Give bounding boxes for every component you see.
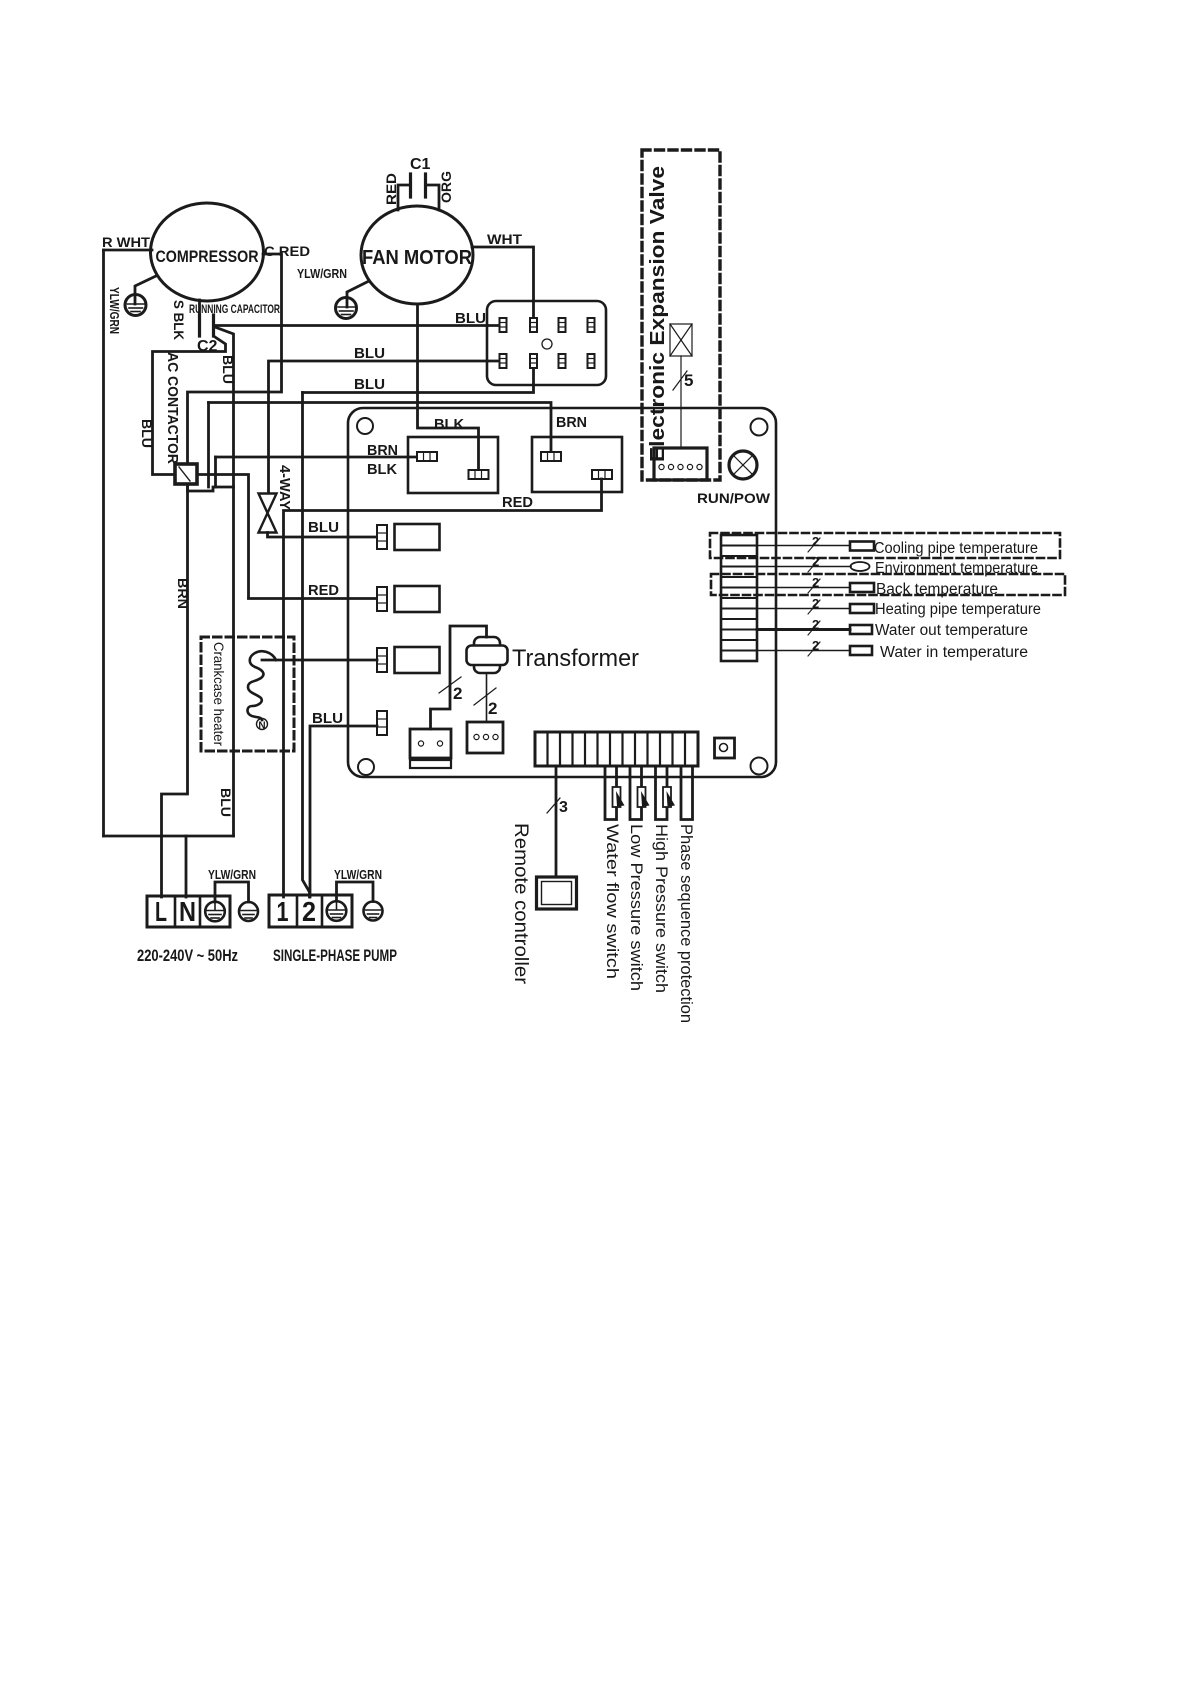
PCB mounting hole bottom-left	[358, 759, 374, 775]
svg-text:Low Pressure switch: Low Pressure switch	[627, 824, 646, 991]
svg-text:BLU: BLU	[218, 788, 234, 817]
transformer T1	[467, 637, 508, 673]
capacitor C1	[411, 174, 426, 197]
J1 pin 5	[500, 354, 507, 368]
svg-text:RUNNING CAPACITOR: RUNNING CAPACITOR	[189, 304, 280, 316]
Electronic Expansion Valve dashed box	[642, 150, 720, 480]
J1 pin 7	[559, 354, 566, 368]
ground screw TB2	[327, 901, 347, 921]
wire BRN left drop	[207, 403, 210, 488]
svg-text:2: 2	[812, 575, 819, 590]
svg-text:2: 2	[453, 684, 462, 703]
relay RY2 pin b	[592, 470, 612, 479]
svg-text:BLU: BLU	[139, 419, 155, 448]
wire YLW/GRN bracket TB1	[215, 882, 249, 902]
bus slash 2 (secondary)	[474, 688, 496, 705]
wire high pressure switch loop	[656, 766, 668, 820]
svg-text:R WHT: R WHT	[102, 234, 150, 250]
J1 pin 3	[559, 318, 566, 332]
sensor RT6	[850, 646, 872, 655]
wire sensor 6	[757, 650, 850, 652]
svg-text:2: 2	[812, 554, 819, 569]
svg-text:3: 3	[559, 799, 568, 816]
connector CN5	[410, 729, 451, 768]
wire N terminal riser	[185, 836, 188, 897]
J1 pin 1	[500, 318, 507, 332]
connector J2 (5-pin EEV)	[654, 448, 707, 480]
svg-text:BRN: BRN	[175, 578, 191, 609]
PCB mounting hole top-right	[751, 419, 768, 436]
wire BLU third line: connector pin 6 to pump circuit	[303, 368, 534, 393]
svg-text:AC CONTACTOR: AC CONTACTOR	[164, 352, 181, 464]
wire WHT: fan to connector pin 2	[472, 247, 534, 316]
PCB connector CN2 box	[395, 586, 440, 612]
svg-text:N: N	[179, 896, 196, 927]
svg-text:FAN MOTOR: FAN MOTOR	[362, 247, 473, 269]
wire BLK: fan bottom to relay1	[418, 304, 479, 470]
PCB board outline	[348, 408, 776, 777]
svg-text:N: N	[258, 721, 265, 732]
PCB connector CN2 pin	[377, 587, 387, 611]
PCB mounting hole top-left	[357, 418, 373, 434]
wire sensor 2	[757, 566, 851, 568]
J1 pin 6	[530, 354, 537, 368]
connector CN6	[467, 722, 503, 753]
wire BLU riser from neutral bus to C2 right plate	[215, 327, 234, 836]
wire remote controller cable	[555, 766, 558, 877]
svg-text:1: 1	[277, 896, 289, 927]
svg-text:BLK: BLK	[367, 462, 398, 478]
crankcase heater element R1	[248, 651, 276, 720]
wire sensor 5 (thick)	[757, 628, 850, 631]
wire transformer secondary to CN6	[486, 673, 488, 722]
svg-text:C RED: C RED	[264, 243, 310, 259]
svg-text:YLW/GRN: YLW/GRN	[334, 867, 382, 882]
wire BRN contactor to terminal L	[162, 484, 188, 897]
remote controller box	[537, 877, 577, 909]
bus slash 2 (sensor4)	[808, 600, 820, 614]
PCB connector CN1 pin	[377, 525, 387, 549]
jumper block on pcb	[715, 738, 735, 758]
bus slash 2 (sensor2)	[808, 558, 820, 572]
ground terminal external TB1	[239, 902, 258, 921]
wire RED contactor to PCB pin CN2	[249, 597, 378, 600]
svg-text:High Pressure switch: High Pressure switch	[652, 824, 671, 993]
wire contactor coil path from C2 left plate	[153, 337, 226, 475]
relay RY2	[532, 437, 622, 492]
relay RY1	[408, 437, 498, 493]
relay RY1 pin a	[417, 452, 437, 461]
svg-text:BLU: BLU	[220, 355, 236, 384]
sensor RT5	[850, 625, 872, 634]
sensor RT3	[850, 583, 874, 592]
svg-text:BLU: BLU	[308, 520, 339, 536]
svg-text:BLU: BLU	[354, 346, 385, 362]
svg-text:RED: RED	[502, 495, 533, 511]
dashed box cooling pipe temperature	[710, 533, 1060, 558]
ground screw TB1	[205, 902, 225, 922]
svg-text:2: 2	[812, 617, 819, 632]
wire C1 right lead	[426, 185, 440, 210]
wire crankcase heater to PCB pin CN3	[262, 659, 377, 662]
svg-text:2: 2	[302, 896, 316, 927]
wire water flow switch loop	[605, 766, 617, 820]
wire sensor 1	[757, 545, 850, 547]
temperature sensor connector CN7	[721, 535, 757, 661]
svg-text:Environment temperature: Environment temperature	[875, 560, 1038, 577]
wire transformer primary to CN5	[431, 626, 487, 729]
compressor M1	[151, 203, 264, 301]
svg-text:Water in temperature: Water in temperature	[880, 644, 1028, 661]
svg-text:BLU: BLU	[312, 711, 343, 727]
bus slash 5	[673, 371, 687, 390]
svg-text:BLU: BLU	[455, 311, 486, 327]
relay RY2 pin a	[541, 452, 561, 461]
svg-text:Water out temperature: Water out temperature	[875, 622, 1028, 639]
svg-text:2: 2	[812, 638, 819, 653]
PCB connector CN3 box	[395, 647, 440, 673]
svg-text:220-240V ~ 50Hz: 220-240V ~ 50Hz	[137, 946, 238, 965]
wire BLU second line to connector pin 5	[269, 361, 501, 493]
svg-text:L: L	[155, 896, 167, 927]
junction steps right of contactor	[197, 475, 249, 599]
bus slash 2 (sensor3)	[808, 579, 820, 593]
wire R WHT: compressor R terminal to left bus	[104, 249, 153, 252]
bus slash 2 (sensor6)	[808, 642, 820, 656]
svg-text:Back temperature: Back temperature	[876, 581, 998, 598]
wire C1 left lead	[398, 185, 411, 210]
wire sensor 3	[757, 587, 850, 589]
svg-text:RUN/POW: RUN/POW	[697, 490, 771, 506]
svg-text:Cooling pipe temperature: Cooling pipe temperature	[874, 540, 1038, 557]
J1 pin 2	[530, 318, 537, 332]
crankcase heater dashed box	[201, 637, 294, 751]
bus slash 2 (sensor1)	[808, 538, 820, 552]
ground terminal external TB2	[364, 902, 383, 921]
svg-text:Heating pipe temperature: Heating pipe temperature	[875, 601, 1041, 618]
wire BLU top: C2 right plate to connector pin 1	[214, 324, 500, 327]
ground G2 (fan motor)	[336, 281, 370, 319]
4-way valve Y1	[259, 494, 277, 533]
svg-text:4-WAY: 4-WAY	[276, 465, 293, 510]
svg-text:BLU: BLU	[354, 377, 385, 393]
svg-text:BRN: BRN	[367, 443, 398, 459]
expansion valve symbol	[670, 324, 692, 356]
ground G1 (compressor)	[125, 276, 156, 316]
bus slash 3	[547, 798, 560, 813]
bus slash 2 (primary)	[439, 677, 461, 693]
J1 pin 4	[588, 318, 595, 332]
connector J1 (8-pin)	[487, 301, 606, 385]
svg-text:2: 2	[812, 596, 819, 611]
switch S1 (water flow)	[613, 787, 625, 807]
LED RUN/POW	[729, 451, 757, 479]
heater neutral mark N	[257, 719, 268, 732]
wire 4-way valve bottom to PCB pin CN1	[268, 533, 378, 538]
wire C RED: compressor C terminal right and down	[188, 254, 282, 465]
PCB mounting hole bottom-right	[751, 758, 768, 775]
switch S2 (low pressure)	[638, 787, 650, 807]
terminal block TB2 (pump)	[269, 895, 352, 927]
dashed box back temperature	[711, 574, 1065, 595]
bus slash 2 (sensor5)	[808, 621, 820, 635]
wire RED: relay2 to pump terminal 1	[284, 479, 602, 897]
wire neutral bottom horizontal	[104, 835, 234, 838]
terminal block TB1 (power)	[147, 896, 230, 927]
svg-text:WHT: WHT	[487, 231, 522, 247]
wire low pressure switch loop	[630, 766, 642, 820]
svg-text:5: 5	[684, 371, 693, 390]
wire relay1 feed drop	[214, 457, 217, 487]
wire phase sequence loop	[681, 766, 693, 820]
svg-text:YLW/GRN: YLW/GRN	[107, 287, 122, 334]
wire left bus vertical (WHT/neutral)	[102, 250, 105, 836]
svg-text:Crankcase heater: Crankcase heater	[211, 642, 227, 746]
capacitor C2	[200, 315, 214, 336]
svg-text:SINGLE-PHASE PUMP: SINGLE-PHASE PUMP	[273, 946, 397, 965]
svg-text:Electronic Expansion Valve: Electronic Expansion Valve	[647, 166, 669, 462]
sensor RT2 (ellipse)	[851, 562, 870, 571]
contactor K1 contact box	[175, 464, 197, 484]
wire compressor S to C2	[198, 300, 201, 315]
svg-text:RED: RED	[308, 583, 339, 599]
wire sensor 4	[757, 608, 850, 610]
J1 pin 8	[588, 354, 595, 368]
wire contactor coil links	[188, 484, 234, 491]
wire BRN BLK to relay1	[216, 456, 418, 459]
relay RY1 pin b	[469, 470, 489, 479]
wire BRN to relay2	[209, 403, 552, 453]
svg-text:BRN: BRN	[556, 415, 587, 431]
PCB connector CN4 pin	[377, 711, 387, 735]
PCB connector CN3 pin	[377, 648, 387, 672]
svg-text:Phase sequence protection: Phase sequence protection	[677, 824, 696, 1023]
svg-text:2: 2	[488, 699, 497, 718]
svg-text:C1: C1	[410, 156, 431, 173]
sensor RT4	[850, 604, 874, 613]
switch S3 (high pressure)	[663, 787, 675, 807]
svg-text:Transformer: Transformer	[512, 645, 639, 672]
svg-text:Water flow switch: Water flow switch	[603, 824, 622, 979]
svg-text:Remote controller: Remote controller	[510, 823, 531, 985]
wire YLW/GRN bracket TB2	[337, 882, 374, 902]
wire BLU pump-2 branch to PCB pin CN4	[310, 726, 377, 897]
PCB connector CN1 box	[395, 524, 440, 550]
svg-text:BLK: BLK	[434, 417, 465, 433]
connector J3 (signal terminal strip)	[535, 732, 698, 766]
svg-text:COMPRESSOR: COMPRESSOR	[156, 247, 259, 266]
sensor RT1	[850, 542, 874, 551]
wire valve to connector J2	[680, 356, 682, 448]
svg-text:YLW/GRN: YLW/GRN	[208, 867, 256, 882]
svg-text:S BLK: S BLK	[171, 300, 187, 340]
fan motor M2	[361, 206, 473, 304]
wire pump-2 riser	[303, 393, 310, 898]
svg-text:YLW/GRN: YLW/GRN	[297, 266, 347, 281]
svg-text:2: 2	[812, 534, 819, 549]
